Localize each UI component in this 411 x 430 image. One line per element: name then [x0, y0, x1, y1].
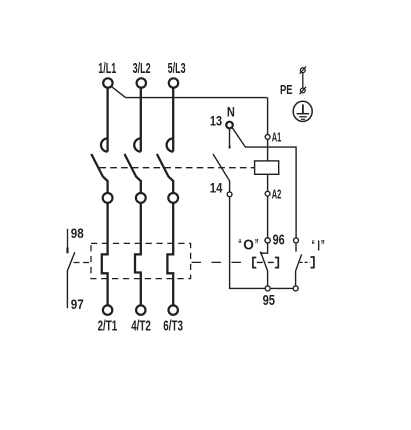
pole 2 mid contact circle [136, 193, 146, 203]
contactor coil M [255, 161, 279, 174]
svg-text:13: 13 [210, 113, 222, 129]
terminal A2 [265, 191, 270, 196]
O button actuator brackets [253, 258, 256, 268]
terminal 95 junction [265, 286, 270, 291]
overload trip linkage dashed (box to O button) [192, 261, 251, 263]
terminal 96 [265, 238, 270, 243]
pole 1: line L1 [91, 88, 107, 306]
terminal circle 1/L1 [103, 78, 112, 87]
svg-text:5/L3: 5/L3 [168, 60, 186, 77]
svg-text:4/T2: 4/T2 [131, 318, 151, 335]
svg-text:A2: A2 [272, 187, 282, 202]
svg-text:6/T3: 6/T3 [163, 318, 183, 335]
svg-text:2/T1: 2/T1 [98, 318, 118, 335]
terminal circle 5/L3 [169, 78, 178, 87]
svg-text:3/L2: 3/L2 [133, 60, 151, 77]
PE terminal bottom [300, 88, 305, 93]
terminal circle 3/L2 [137, 78, 146, 87]
svg-text:98: 98 [71, 225, 84, 241]
svg-text:“: “ [238, 236, 241, 253]
wire: coil supply line A1-A2 vertical [267, 98, 269, 243]
terminal circle 4/T2 [136, 305, 145, 314]
linkage 97-98 to overload box [74, 262, 92, 264]
svg-text:“: “ [312, 237, 315, 254]
overload relay dashed box [91, 243, 191, 278]
aux contact 97-98 (overload NO) [67, 229, 69, 249]
I button top terminal [294, 238, 299, 243]
mechanical linkage (poles to coil) dashed [100, 167, 255, 169]
protective earth symbol [293, 101, 312, 121]
aux contact 13-14 stub [229, 128, 231, 149]
svg-text:1/L1: 1/L1 [98, 60, 116, 77]
terminal 14 [227, 192, 232, 197]
svg-text:O: O [243, 236, 254, 253]
svg-text:N: N [227, 104, 235, 120]
pole 2: line L2 [125, 88, 141, 306]
terminal circle 6/T3 [169, 305, 178, 314]
wire: 14 down to bottom rail and across [230, 197, 296, 289]
svg-text:A1: A1 [272, 130, 282, 145]
I button actuator [300, 261, 310, 263]
terminal A1 [265, 135, 270, 140]
pole 1 mid contact circle [103, 193, 113, 203]
svg-text:”: ” [255, 236, 259, 253]
svg-text:97: 97 [71, 296, 84, 312]
PE wire [302, 73, 304, 88]
svg-text:96: 96 [273, 232, 285, 249]
wire: L1 tap to control circuit [111, 86, 267, 97]
I button NO contact [295, 243, 297, 252]
svg-text:95: 95 [263, 292, 275, 309]
terminal N / 13 [226, 122, 233, 129]
aux contact 13-14 blade [213, 154, 230, 192]
svg-text:PE: PE [280, 82, 293, 97]
O button NC contact [261, 243, 267, 253]
svg-text:14: 14 [210, 179, 223, 195]
pole 3: line L3 [157, 88, 173, 306]
pole 3 mid contact circle [168, 193, 178, 203]
I button bottom terminal [293, 286, 298, 291]
PE terminal top [300, 68, 305, 73]
svg-text:I: I [317, 237, 320, 254]
svg-text:”: ” [321, 237, 325, 254]
terminal circle 2/T1 [103, 305, 112, 314]
wire: N diagonal and right rail to I button [232, 127, 296, 238]
